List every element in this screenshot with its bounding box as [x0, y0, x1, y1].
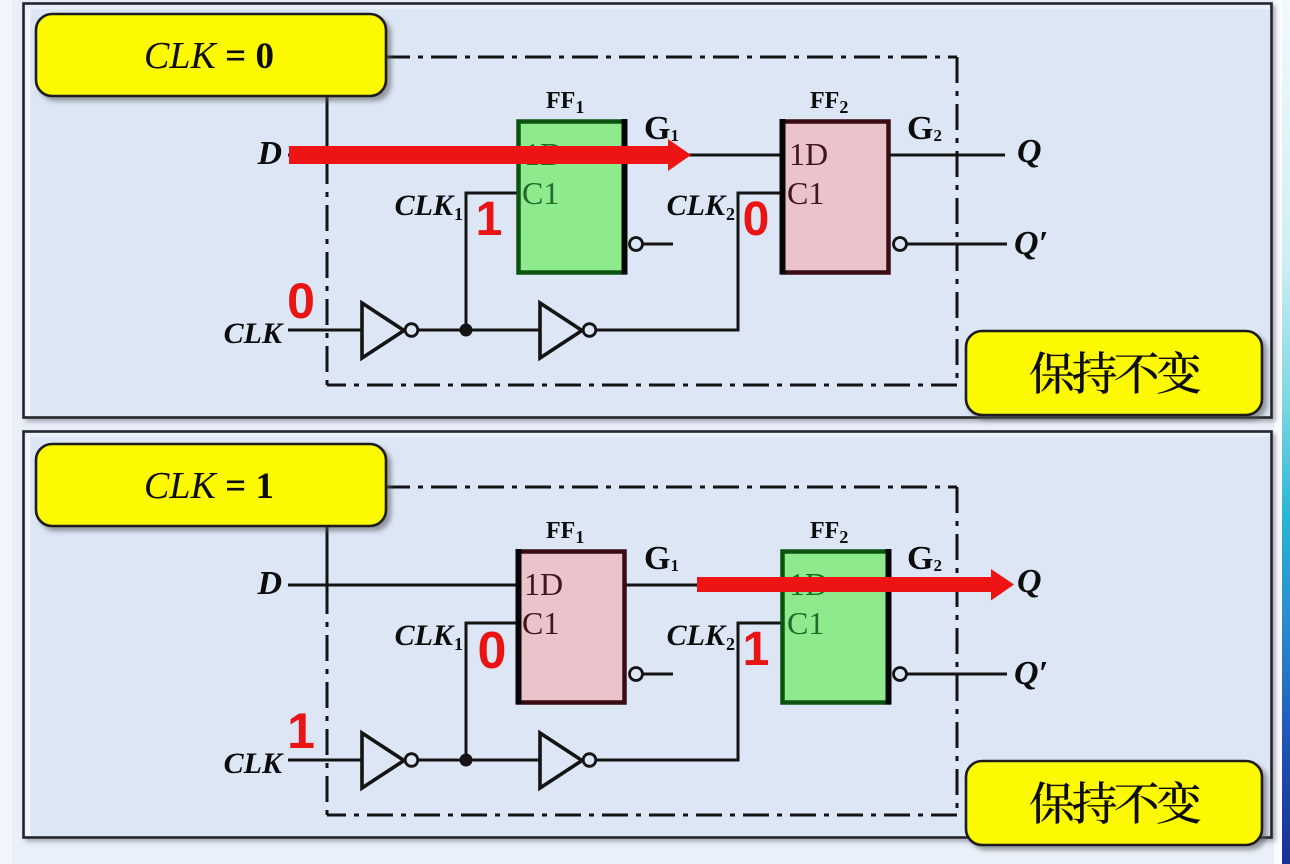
svg-text:0: 0 [743, 193, 770, 246]
svg-text:Q: Q [1017, 133, 1042, 170]
svg-text:CLK: CLK [667, 619, 727, 652]
FF1 inverted output bubble (panel 1) [630, 238, 643, 251]
yellow title box 0 (panel 1) [36, 14, 386, 96]
flip-flop latch FF2 box (panel 2) [783, 552, 889, 703]
dash-dot IC boundary bottom edge (panel 1) [327, 384, 957, 387]
dash-dot IC boundary left edge (panel 2) [326, 526, 329, 588]
wire: FF2 output to Q (panel 1) [889, 154, 1005, 157]
dash-dot IC boundary bottom edge (panel 2) [327, 814, 957, 817]
dash-dot IC boundary top edge (panel 1) [384, 56, 957, 59]
svg-text:CLK: CLK [395, 189, 455, 222]
svg-text:C1: C1 [522, 175, 559, 211]
svg-text:CLK: CLK [224, 317, 284, 350]
svg-text:Q′: Q′ [1014, 225, 1048, 262]
wire: D input to FF1 1D, on to FF2 (panel 1) [288, 154, 780, 157]
flip-flop latch FF1 box (panel 1) [519, 122, 625, 273]
wire: CLK1 riser from junction to FF1 C1 (panel 1) [466, 193, 518, 330]
svg-text:0: 0 [478, 622, 507, 680]
inverter G1 triangle (panel 1) [362, 303, 404, 358]
svg-text:CLK: CLK [667, 189, 727, 222]
red signal-path arrow from D through FF1 (panel 1) [289, 139, 691, 171]
svg-text:Q: Q [1017, 563, 1042, 600]
wire: inverter 2 output to CLK2 riser to FF2 C1 (panel 2) [595, 623, 782, 760]
wire: FF2 output to Q (panel 2) [889, 584, 1005, 587]
panel 2 frame [24, 432, 1272, 838]
wire: CLK input to inverter 1 (panel 2) [288, 759, 362, 762]
inverter G1 triangle (panel 2) [362, 733, 404, 788]
wire: D input to FF1 1D, on to FF2 (panel 2) [288, 584, 780, 587]
flip-flop latch FF2 box (panel 1) [783, 122, 889, 273]
dash-dot IC boundary left edge (panel 1) [326, 96, 329, 158]
FF2 inverted output bubble (panel 2) [894, 668, 907, 681]
inverter G2 bubble (panel 1) [583, 324, 596, 337]
svg-text:CLK: CLK [395, 619, 455, 652]
svg-text:1D: 1D [524, 566, 563, 602]
red signal-path arrow from G1 through FF2 to Q (panel 2) [697, 569, 1014, 601]
FF1 inverted output bubble (panel 2) [630, 668, 643, 681]
inverter G1 bubble (panel 2) [405, 754, 418, 767]
inverter G2 triangle (panel 2) [540, 733, 582, 788]
dash-dot IC boundary right edge (panel 1) [956, 57, 959, 385]
svg-text:2: 2 [726, 634, 735, 654]
svg-text:C1: C1 [787, 175, 824, 211]
svg-text:1: 1 [454, 634, 463, 654]
inverter G2 triangle (panel 1) [540, 303, 582, 358]
wire: CLK1 riser from junction to FF1 C1 (panel 2) [466, 623, 518, 760]
inverter G1 bubble (panel 1) [405, 324, 418, 337]
panel 2 inner left bevel [26, 433, 31, 836]
panel 1 inner left bevel [26, 5, 31, 416]
junction dot on CLK1 node (panel 1) [460, 324, 473, 337]
junction dot on CLK1 node (panel 2) [460, 754, 473, 767]
svg-text:C1: C1 [787, 605, 824, 641]
svg-text:D: D [256, 565, 282, 602]
wire: inverter 1 output to inverter 2 (panel 1) [417, 329, 540, 332]
flip-flop latch FF1 box (panel 2) [519, 552, 625, 703]
svg-text:1D: 1D [789, 136, 828, 172]
left light strip [0, 0, 12, 864]
yellow result box baochibubian (panel 2) [966, 761, 1262, 845]
svg-text:CLK = 0: CLK = 0 [144, 35, 274, 77]
inverter G2 bubble (panel 2) [583, 754, 596, 767]
dash-dot IC boundary top edge (panel 2) [384, 486, 957, 489]
dash-dot IC boundary right edge (panel 2) [956, 487, 959, 815]
panel 1 frame [24, 4, 1272, 418]
right gradient bar [1282, 0, 1290, 864]
wire: inverter 2 output to CLK2 riser to FF2 C1 (panel 1) [595, 193, 782, 330]
svg-text:C1: C1 [522, 605, 559, 641]
svg-text:0: 0 [287, 273, 315, 329]
wire: FF2 inverted output to Qprime (panel 2) [907, 673, 1007, 676]
FF2 inverted output bubble (panel 1) [894, 238, 907, 251]
svg-text:1: 1 [454, 204, 463, 224]
svg-text:1: 1 [476, 193, 503, 246]
wire stub from FF1 inverted output (panel 2) [643, 673, 673, 676]
yellow result box baochibubian (panel 1) [966, 331, 1262, 415]
wire: FF2 inverted output to Qprime (panel 1) [907, 243, 1007, 246]
wire stub from FF1 inverted output (panel 1) [643, 243, 673, 246]
svg-text:CLK: CLK [224, 747, 284, 780]
svg-text:CLK = 1: CLK = 1 [144, 465, 274, 507]
svg-text:2: 2 [726, 204, 735, 224]
yellow title box 1 (panel 2) [36, 444, 386, 526]
wire: inverter 1 output to inverter 2 (panel 2) [417, 759, 540, 762]
svg-text:Q′: Q′ [1014, 655, 1048, 692]
svg-text:D: D [256, 135, 282, 172]
right white strip [1274, 0, 1283, 864]
svg-text:1: 1 [287, 703, 315, 759]
svg-text:1: 1 [743, 623, 770, 676]
wire: CLK input to inverter 1 (panel 1) [288, 329, 362, 332]
